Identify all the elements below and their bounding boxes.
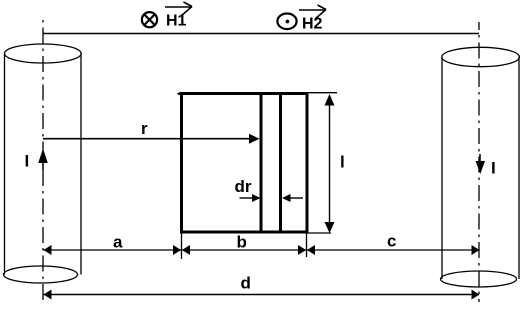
dimension r: line from left axis to strip (43, 134, 260, 144)
dr arrow right (pointing left at strip) (282, 194, 303, 202)
svg-text:I: I (491, 159, 496, 178)
dimension line d (43, 294, 479, 296)
dimension l: extension lines (308, 92, 337, 94)
top reference line between conductor axes (43, 33, 479, 35)
strip line left (inner boundary of dr strip) (260, 92, 263, 233)
field symbol H1 (flux into page) (142, 12, 157, 27)
arrow at left axis (a start) (44, 245, 52, 255)
right conductor axis (dash-dot centerline) (478, 22, 480, 302)
svg-text:H2: H2 (302, 15, 323, 32)
small nub at rectangle top-left corner (177, 92, 182, 96)
svg-text:d: d (241, 274, 251, 293)
arrow at right axis (c end) (472, 245, 480, 255)
dimension line a-b-c (43, 249, 479, 251)
current arrow left (I upward) (38, 149, 48, 171)
arrow pair at rectangle left edge (173, 245, 181, 255)
dimension l: vertical line with arrows (325, 94, 335, 233)
integration loop rectangle (182, 94, 308, 233)
svg-text:I: I (25, 152, 30, 171)
field symbol H2 (flux out of page) (277, 13, 296, 29)
current arrow right (I downward) (476, 154, 485, 174)
strip line right (outer boundary of dr strip) (279, 92, 282, 233)
arrow d left (44, 290, 52, 300)
label H2 with vector arrow (299, 5, 326, 32)
arrow pair at rectangle right edge (298, 245, 306, 255)
left conductor axis (dash-dot centerline) (42, 20, 44, 302)
svg-text:r: r (141, 119, 148, 138)
arrow d right (472, 290, 480, 300)
svg-text:c: c (387, 232, 396, 251)
right conductor cylinder (441, 47, 520, 287)
svg-text:l: l (340, 152, 345, 171)
svg-text:dr: dr (235, 177, 252, 196)
dr arrow left (pointing right at strip) (240, 194, 261, 202)
svg-text:b: b (237, 233, 247, 252)
svg-text:a: a (113, 233, 123, 252)
extension line below rectangle right edge (306, 233, 308, 257)
label H1 with vector arrow (165, 2, 192, 30)
svg-text:H1: H1 (166, 13, 187, 30)
left conductor cylinder (4, 44, 82, 283)
extension line below rectangle left edge (181, 233, 183, 259)
